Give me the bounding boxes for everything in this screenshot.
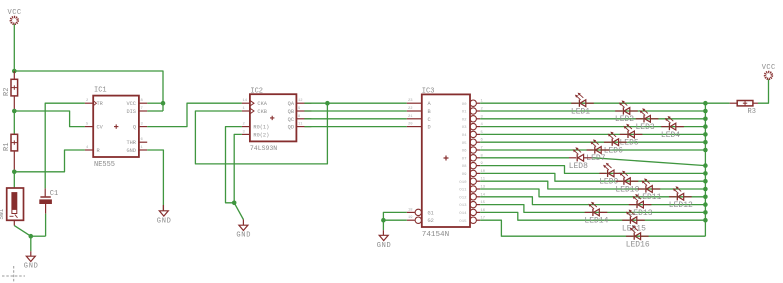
svg-text:VCC: VCC	[8, 9, 21, 17]
svg-text:QC: QC	[288, 117, 294, 123]
svg-text:7: 7	[141, 107, 143, 111]
svg-text:THR: THR	[126, 140, 136, 146]
svg-text:O5: O5	[462, 142, 467, 146]
svg-text:20: 20	[408, 123, 413, 127]
svg-text:NE555: NE555	[94, 161, 115, 169]
svg-text:LED12: LED12	[669, 201, 693, 210]
svg-text:21: 21	[408, 115, 413, 119]
svg-text:CKB: CKB	[257, 109, 267, 115]
svg-text:D: D	[428, 125, 431, 131]
svg-text:QD: QD	[288, 125, 294, 131]
svg-text:12: 12	[298, 99, 303, 103]
svg-text:O0: O0	[462, 103, 467, 107]
svg-text:18: 18	[408, 208, 413, 212]
svg-text:LED16: LED16	[626, 240, 650, 249]
svg-text:R1: R1	[3, 143, 11, 151]
svg-text:G1: G1	[428, 210, 434, 216]
svg-text:O2: O2	[462, 118, 467, 122]
svg-text:CKA: CKA	[257, 101, 267, 107]
svg-text:GND: GND	[126, 148, 136, 154]
svg-text:23: 23	[408, 99, 413, 103]
svg-text:O11: O11	[459, 189, 467, 193]
svg-text:19: 19	[408, 216, 413, 220]
svg-text:O15: O15	[459, 220, 467, 224]
svg-text:VCC: VCC	[762, 64, 776, 72]
svg-text:O7: O7	[462, 157, 467, 161]
svg-text:GND: GND	[236, 232, 250, 240]
svg-text:Q: Q	[133, 125, 136, 131]
svg-text:B: B	[428, 109, 431, 115]
svg-text:R3: R3	[748, 108, 756, 116]
svg-text:O4: O4	[462, 134, 467, 138]
svg-text:IC2: IC2	[250, 87, 263, 95]
svg-text:LED8: LED8	[569, 162, 588, 171]
svg-text:LED10: LED10	[615, 185, 639, 194]
svg-text:DIS: DIS	[126, 109, 136, 115]
svg-text:R0(1): R0(1)	[253, 125, 269, 131]
svg-text:LED3: LED3	[636, 123, 655, 132]
svg-text:O10: O10	[459, 181, 467, 185]
svg-text:SW1: SW1	[0, 208, 5, 219]
svg-text:R2: R2	[3, 88, 11, 96]
svg-text:LED1: LED1	[571, 107, 590, 116]
svg-text:LED2: LED2	[615, 115, 634, 124]
svg-text:IC3: IC3	[422, 87, 435, 95]
svg-text:QB: QB	[288, 109, 294, 115]
svg-text:74154N: 74154N	[422, 231, 449, 239]
svg-text:74LS93N: 74LS93N	[250, 145, 277, 152]
svg-text:O13: O13	[459, 204, 467, 208]
svg-text:11: 11	[298, 123, 303, 127]
svg-text:LED4: LED4	[661, 131, 680, 140]
svg-text:O8: O8	[462, 165, 467, 169]
svg-text:CV: CV	[97, 125, 104, 131]
svg-text:O9: O9	[462, 173, 467, 177]
svg-text:LED14: LED14	[584, 217, 608, 226]
svg-text:GND: GND	[377, 242, 391, 250]
svg-text:O3: O3	[462, 126, 467, 130]
svg-text:O14: O14	[459, 212, 467, 216]
svg-text:VCC: VCC	[126, 101, 136, 107]
svg-text:LED11: LED11	[637, 193, 661, 202]
svg-text:GND: GND	[157, 217, 171, 225]
svg-text:R0(2): R0(2)	[253, 132, 269, 138]
svg-text:QA: QA	[288, 101, 295, 107]
svg-text:O6: O6	[462, 150, 467, 154]
svg-text:C: C	[428, 117, 431, 123]
svg-text:G2: G2	[428, 218, 434, 224]
svg-text:O12: O12	[459, 196, 467, 200]
svg-text:TR: TR	[97, 101, 104, 107]
svg-text:IC1: IC1	[94, 87, 107, 95]
svg-text:14: 14	[243, 99, 248, 103]
svg-text:O1: O1	[462, 111, 467, 115]
svg-text:22: 22	[408, 107, 413, 111]
svg-text:C1: C1	[50, 190, 58, 198]
svg-text:LED7: LED7	[586, 154, 605, 163]
svg-text:GND: GND	[24, 263, 38, 271]
svg-text:LED6: LED6	[604, 146, 623, 155]
